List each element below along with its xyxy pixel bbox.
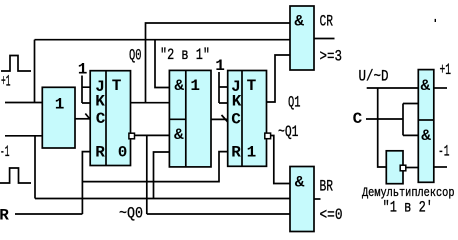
svg-text:-1: -1 — [438, 143, 450, 161]
svg-text:1: 1 — [247, 144, 257, 162]
dynamic input slash FF2 C — [222, 115, 231, 125]
svg-text:1: 1 — [190, 77, 200, 95]
pulse waveform -1 input — [0, 168, 31, 183]
FF1 inverted output bubble — [129, 133, 135, 139]
wire demux -1 output stub — [434, 166, 447, 168]
svg-text:BR: BR — [320, 178, 334, 196]
wire U/~D drop to inverter — [378, 88, 387, 167]
JK flip-flop FF2 — [228, 71, 267, 167]
svg-text:&: & — [295, 174, 305, 192]
svg-text:C: C — [96, 110, 106, 128]
wire constant 1 to FF2 J and K — [219, 72, 228, 103]
svg-text:&: & — [421, 77, 431, 95]
wire R input — [15, 213, 82, 215]
svg-text:1: 1 — [78, 61, 88, 79]
svg-text:K: K — [232, 93, 242, 111]
svg-text:0: 0 — [118, 144, 128, 162]
demux AND gate column — [418, 70, 434, 183]
svg-text:C: C — [353, 110, 363, 128]
svg-text:+1: +1 — [440, 61, 452, 79]
FF2 inverted output bubble — [265, 133, 271, 139]
wire constant 1 to FF1 J and K — [82, 76, 90, 104]
svg-text:<=0: <=0 — [320, 206, 343, 224]
mux 2 in 1 — [169, 70, 211, 166]
wire U/~D input to demux upper AND — [367, 87, 419, 89]
svg-text:K: K — [95, 93, 105, 111]
wire OR output to FF1 C input — [75, 118, 90, 120]
svg-text:R: R — [0, 207, 9, 225]
wire ~Q1 from FF2 inverted output to BR gate input 1 — [271, 136, 290, 184]
wire -1 input to OR element — [5, 135, 43, 137]
wire BR gate output stub — [314, 198, 321, 200]
wire -1 drop — [34, 136, 36, 199]
wire +1 drop to mux upper AND input 1 — [155, 40, 169, 88]
wire ~Q0 from FF1 inverted output to mux lower AND input 1 — [135, 134, 170, 136]
svg-text:T: T — [247, 77, 257, 95]
inverter element — [386, 151, 406, 184]
svg-text:1: 1 — [215, 57, 225, 75]
wire ~Q0 drop — [146, 135, 148, 214]
svg-text:>=3: >=3 — [320, 48, 343, 66]
svg-text:U/~D: U/~D — [359, 68, 389, 86]
wire -1 bottom rail to BR gate input 2 — [35, 198, 290, 200]
svg-text:~Q0: ~Q0 — [119, 205, 143, 223]
wire CR gate output stub — [314, 38, 335, 40]
svg-text:"2 в 1": "2 в 1" — [160, 46, 210, 64]
svg-text:+1: +1 — [1, 73, 11, 91]
svg-text:-1: -1 — [0, 143, 10, 161]
wire +1 input to OR element — [5, 102, 43, 104]
AND gate CR — [290, 6, 314, 70]
JK flip-flop FF1 — [90, 71, 130, 166]
AND gate BR — [290, 167, 314, 232]
svg-text:&: & — [421, 127, 431, 145]
wire R branch to FF2 R input — [82, 152, 227, 182]
svg-text:Q1: Q1 — [288, 94, 301, 112]
wire ~Q0 bottom rail to BR gate input 3 — [147, 213, 290, 215]
wire Q0 riser to CR gate input 1 — [146, 23, 291, 103]
svg-text:&: & — [174, 126, 184, 144]
svg-text:&: & — [294, 13, 304, 31]
svg-text:&: & — [174, 77, 184, 95]
svg-text:1: 1 — [55, 96, 65, 114]
svg-text:R: R — [231, 144, 241, 162]
pulse waveform +1 input — [1, 56, 31, 72]
wire -1 riser to mux lower AND input 2 — [154, 152, 170, 199]
svg-text:"1 в 2': "1 в 2' — [383, 199, 434, 217]
wire Q0 from FF1 T output to mux upper AND input 2 — [131, 102, 170, 104]
svg-text:T: T — [112, 77, 122, 95]
wire +1 riser to top rail — [34, 40, 36, 103]
OR element 1 — [42, 87, 75, 148]
wire mux output to FF2 C input — [211, 118, 228, 120]
svg-text:R: R — [95, 144, 105, 162]
wire inverter output to demux lower AND — [406, 167, 419, 169]
wire top rail +1 to CR gate input 2 — [35, 39, 291, 41]
svg-text:~Q1: ~Q1 — [278, 123, 299, 141]
svg-text:Q0: Q0 — [129, 47, 142, 65]
wire C input — [366, 118, 403, 120]
stray tick mark top right — [435, 19, 436, 22]
svg-text:CR: CR — [320, 13, 334, 31]
wire C branch to both demux AND gates — [403, 104, 419, 136]
wire Q1 from FF2 T output riser to CR gate input 3 — [267, 55, 291, 102]
wire demux +1 output stub — [434, 87, 447, 89]
demultiplexer sub-circuit — [366, 88, 447, 168]
dynamic input slash FF1 C — [85, 114, 94, 125]
wire R riser to FF1 R input — [82, 152, 90, 214]
svg-text:C: C — [231, 111, 241, 129]
